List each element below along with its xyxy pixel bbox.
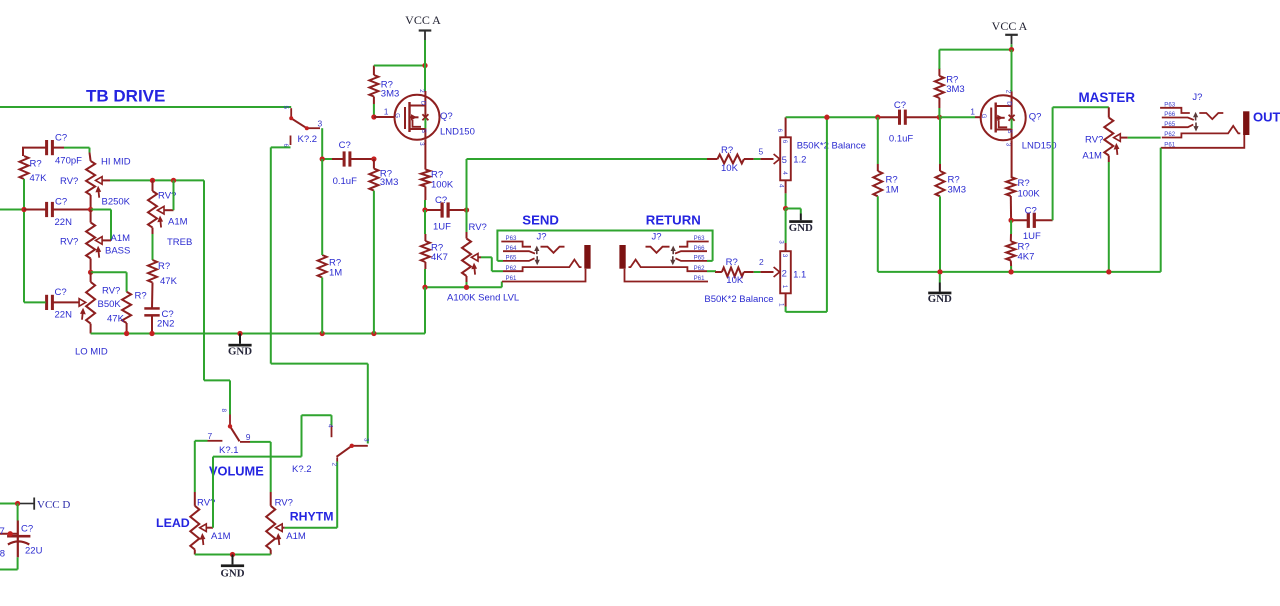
switch K?.1 arm <box>230 426 240 441</box>
wire 470pF right <box>53 147 64 149</box>
svg-text:9: 9 <box>246 432 251 442</box>
wire pin9 to RHYTM <box>250 441 271 443</box>
resistor R14 100K <box>1006 177 1015 196</box>
svg-text:1: 1 <box>384 107 389 117</box>
wire R5 bottom <box>373 97 375 105</box>
transistor Q2 LND150 <box>981 95 1026 140</box>
wire RV2 top lead <box>152 180 154 191</box>
svg-text:3: 3 <box>1004 143 1011 147</box>
wire BASS bottom right <box>91 271 127 273</box>
potentiometer 1.1 box <box>780 251 791 293</box>
svg-text:3: 3 <box>418 142 425 146</box>
node junctions <box>937 269 942 274</box>
switch K?.2 upper pin 6 stub <box>290 136 292 146</box>
node rail dots <box>124 331 129 336</box>
svg-text:5: 5 <box>782 155 787 166</box>
wire send ground rail <box>425 286 502 288</box>
svg-text:C?: C? <box>1025 205 1037 216</box>
wire drain right <box>1011 50 1013 92</box>
node wiper rail dots <box>150 178 155 183</box>
svg-text:3M3: 3M3 <box>948 185 966 196</box>
node junction <box>15 501 20 506</box>
switch K?.2 upper pivot dot <box>289 116 293 120</box>
pot box 1.2 wiper arrow <box>774 154 780 164</box>
wire right ground rail <box>878 271 1161 273</box>
wire 0.1uF right side <box>351 158 374 160</box>
wire SEND green box <box>497 231 712 261</box>
wire RV1 bottom lead <box>90 195 92 210</box>
svg-text:4K7: 4K7 <box>431 252 448 263</box>
svg-text:22N: 22N <box>55 310 73 321</box>
wire TB DRIVE <box>0 106 291 108</box>
wire 1.1 bottom loop <box>785 307 787 312</box>
wire ground rail <box>91 333 425 335</box>
resistor R13 3M3 <box>936 171 945 196</box>
wire pin4 to node <box>785 193 787 208</box>
wire RV5 bottom <box>466 276 468 282</box>
svg-text:2: 2 <box>1004 90 1011 94</box>
svg-text:1: 1 <box>777 303 784 307</box>
wire RV8 bottom lead <box>270 550 272 555</box>
capacitor C? 1UF right <box>1027 213 1030 228</box>
wire 2N2 bottom <box>151 315 153 333</box>
svg-text:J?: J? <box>1192 92 1202 103</box>
svg-text:RV?: RV? <box>469 222 487 233</box>
node junction <box>937 115 942 120</box>
wire RV7 wiper <box>206 527 213 529</box>
resistor R2 47K <box>122 292 131 323</box>
svg-text:A1M: A1M <box>286 531 306 542</box>
switch K?.2 upper arm <box>291 118 307 128</box>
wire OUT sleeve ground <box>1160 148 1162 272</box>
node junction <box>875 115 880 120</box>
wire RV5 wiper <box>478 256 481 258</box>
wire R9 left <box>716 270 722 273</box>
wire 1UF left <box>425 209 441 211</box>
capacitor C? 22U <box>17 521 19 558</box>
wire node to 1.1 <box>785 209 787 244</box>
svg-text:G: G <box>980 114 987 119</box>
potentiometer RV8 A1M RHYTM <box>266 506 275 550</box>
wire R15 bottom <box>1010 261 1012 267</box>
svg-text:S: S <box>420 129 427 133</box>
svg-text:1UF: 1UF <box>433 222 451 233</box>
wire 1UF up-right <box>466 159 468 210</box>
wire K?.2 pin6 left <box>271 146 291 148</box>
wire VCC D entry <box>0 503 18 505</box>
svg-text:22U: 22U <box>25 546 43 557</box>
svg-text:C?: C? <box>339 140 351 151</box>
switch K?.2 lower pin 4 stub <box>331 426 333 438</box>
svg-text:1M: 1M <box>886 185 899 196</box>
resistor R15 4K7 <box>1006 241 1015 260</box>
svg-text:8: 8 <box>220 409 227 413</box>
svg-text:B50K: B50K <box>98 299 122 310</box>
svg-text:J?: J? <box>537 232 547 243</box>
pin 6 stub <box>785 117 787 137</box>
switch K?.1 pin 9 contact <box>240 441 250 443</box>
svg-text:VCC A: VCC A <box>405 13 441 27</box>
wire K?.2 pin3 to node <box>321 128 323 159</box>
svg-text:2: 2 <box>759 257 764 267</box>
svg-text:Q?: Q? <box>1029 112 1042 123</box>
switch K?.2 lower pin 2 stub <box>336 458 338 462</box>
wire R5 top <box>373 66 375 76</box>
wire RV7 bottom lead <box>194 550 196 555</box>
svg-text:R?: R? <box>721 145 733 156</box>
wire R12 top <box>938 68 940 76</box>
svg-text:1.1: 1.1 <box>793 269 806 280</box>
ground GND1 <box>239 334 241 344</box>
resistor R9 10K <box>722 268 744 277</box>
svg-text:G: G <box>394 113 401 118</box>
potentiometer RV5 A100K <box>462 239 471 277</box>
svg-text:3: 3 <box>781 254 788 258</box>
svg-text:HI MID: HI MID <box>101 157 131 168</box>
wire R12 bottom <box>938 98 940 108</box>
transistor Q1 LND150 <box>395 95 440 140</box>
wire RV2 bottom <box>152 228 154 234</box>
wire RV4 bottom lead <box>90 324 92 334</box>
resistor R5 3M3 <box>369 75 378 97</box>
wire RV8 top lead <box>270 492 272 506</box>
resistor R7 100K <box>421 170 430 187</box>
wire RV6 wiper <box>1120 137 1127 139</box>
potentiometer RV1 B250K HI MID <box>86 161 95 195</box>
wire 22N lower left <box>24 301 46 303</box>
svg-text:3M3: 3M3 <box>381 89 399 100</box>
svg-text:GND: GND <box>789 222 813 234</box>
wire R13 bottom <box>939 196 941 272</box>
wire 22N lower to wiper <box>53 301 79 303</box>
svg-text:1M: 1M <box>329 268 342 279</box>
node junction <box>88 270 93 275</box>
wire RV3 wiper <box>102 239 111 241</box>
node junctions <box>422 285 427 290</box>
switch K?.2 upper pin 3 contact <box>309 127 321 129</box>
wire interstage rail <box>786 116 878 118</box>
wire R10 right <box>744 158 754 160</box>
wire RETURN tip feed <box>707 270 716 272</box>
svg-text:BASS: BASS <box>105 246 130 257</box>
svg-text:R?: R? <box>1018 178 1030 189</box>
svg-text:C?: C? <box>55 133 67 144</box>
wire to BASS wiper <box>91 209 111 211</box>
power VCC A left <box>419 29 432 31</box>
capacitor C? 0.1uF left <box>343 151 346 166</box>
wire RV7 top lead <box>194 492 196 506</box>
node junction <box>1008 218 1013 223</box>
switch K?.1 pin 8 stub <box>229 415 231 427</box>
svg-text:0.1uF: 0.1uF <box>333 176 357 187</box>
node junctions <box>422 207 427 212</box>
wire R1 bottom <box>23 179 25 302</box>
capacitor C? 0.1uF right <box>898 110 901 125</box>
svg-text:OUT: OUT <box>1253 110 1280 125</box>
svg-text:R?: R? <box>135 291 147 302</box>
wire R13 top <box>939 117 941 164</box>
switch K?.2 lower pin 3 contact <box>352 445 368 447</box>
svg-text:MASTER: MASTER <box>1079 90 1136 105</box>
power flag VCC D <box>20 503 34 505</box>
svg-text:C?: C? <box>894 100 906 111</box>
wire 0.1uF left side <box>322 158 332 160</box>
svg-text:47K: 47K <box>107 314 125 325</box>
svg-text:LND150: LND150 <box>1022 141 1057 152</box>
wire R8 top <box>424 210 426 234</box>
svg-text:5: 5 <box>759 147 764 157</box>
wire VCC D down <box>17 504 19 521</box>
svg-text:VOLUME: VOLUME <box>209 464 264 479</box>
wire RV6 top lead <box>1108 107 1110 117</box>
ground GND2 tap <box>786 208 801 210</box>
resistor R4 1M <box>318 255 327 278</box>
svg-text:6: 6 <box>781 140 788 144</box>
node junction <box>422 63 427 68</box>
svg-text:4: 4 <box>777 184 784 188</box>
svg-text:K?.1: K?.1 <box>219 445 239 456</box>
ground GND3 <box>939 274 941 283</box>
wire RV3 bottom lead <box>90 259 92 273</box>
svg-text:K?.2: K?.2 <box>292 464 312 475</box>
wire cap to gate node <box>906 116 939 118</box>
resistor R8 4K7 <box>421 241 430 262</box>
wire RV2 wiper <box>164 209 174 211</box>
wire clipped component link <box>0 533 18 535</box>
wire 1UF right wiring <box>1011 219 1027 221</box>
svg-text:VCC D: VCC D <box>37 499 70 511</box>
svg-text:3: 3 <box>363 438 370 442</box>
node junction <box>824 115 829 120</box>
wire RV6 bottom <box>1108 156 1110 163</box>
svg-text:6: 6 <box>776 129 783 133</box>
pin 4 stub <box>785 180 787 193</box>
svg-text:A1M: A1M <box>1082 151 1102 162</box>
svg-text:RETURN: RETURN <box>646 213 701 228</box>
svg-text:100K: 100K <box>1018 189 1041 200</box>
node junction <box>1009 47 1014 52</box>
wire pin7 to LEAD <box>195 440 208 442</box>
svg-text:100K: 100K <box>431 180 454 191</box>
svg-text:R?: R? <box>158 261 170 272</box>
potentiometer 1.2 box <box>780 137 791 180</box>
wire R14 bottom <box>1010 196 1012 220</box>
svg-text:SEND: SEND <box>522 213 559 228</box>
switch K?.2 lower arm <box>337 446 352 457</box>
resistor R6 3M3 <box>369 169 378 191</box>
svg-text:C?: C? <box>55 287 67 298</box>
capacitor C? 470pF <box>45 140 48 155</box>
svg-text:R?: R? <box>726 257 738 268</box>
wire VCC A stem <box>424 40 426 91</box>
resistor R3 47K <box>148 260 157 283</box>
node junction <box>783 206 788 211</box>
node junction <box>230 552 235 557</box>
svg-text:1.2: 1.2 <box>793 155 806 166</box>
wire gate right <box>941 116 975 118</box>
svg-text:47K: 47K <box>30 173 48 184</box>
svg-text:GND: GND <box>228 345 252 357</box>
wire R6 bottom <box>373 191 375 334</box>
svg-text:TB DRIVE: TB DRIVE <box>86 87 165 106</box>
wire R10 left <box>707 158 718 160</box>
svg-text:4: 4 <box>327 424 334 428</box>
wire R9 right <box>744 271 754 273</box>
node junction <box>21 207 26 212</box>
node junction <box>8 531 13 536</box>
wire RV4 top lead <box>90 272 92 282</box>
svg-text:TREB: TREB <box>167 237 192 248</box>
svg-text:RV?: RV? <box>60 237 78 248</box>
svg-text:LEAD: LEAD <box>156 516 190 530</box>
svg-text:VCC A: VCC A <box>992 19 1028 33</box>
svg-text:2N2: 2N2 <box>157 319 174 330</box>
svg-text:1: 1 <box>781 285 788 289</box>
svg-text:22N: 22N <box>55 217 73 228</box>
svg-text:5: 5 <box>282 106 289 110</box>
svg-text:4K7: 4K7 <box>1018 252 1035 263</box>
capacitor C? 22N upper <box>45 202 48 217</box>
resistor R10 10K <box>718 155 745 164</box>
svg-text:10K: 10K <box>726 275 744 286</box>
wire R2 bottom <box>126 323 128 334</box>
power VCC A right <box>1005 34 1018 36</box>
switch K?.2 upper pin 5 stub <box>290 108 292 118</box>
pot box 1.1 wiper arrow <box>774 267 780 277</box>
svg-text:RHYTM: RHYTM <box>290 510 334 524</box>
wire Q1 source down <box>424 140 426 170</box>
svg-text:7: 7 <box>208 431 213 441</box>
wire R15 top <box>1010 220 1012 234</box>
wire VCC right stem <box>1011 44 1013 49</box>
resistor R11 1M <box>873 171 882 196</box>
svg-text:D: D <box>1006 101 1013 106</box>
svg-text:3M3: 3M3 <box>946 84 964 95</box>
potentiometer RV4 B50K LO MID <box>86 282 95 324</box>
svg-text:B50K*2 Balance: B50K*2 Balance <box>797 140 866 151</box>
wire drain rail link <box>424 287 426 333</box>
wire R8 bottom <box>424 262 426 269</box>
potentiometer RV7 A1M LEAD <box>190 506 199 550</box>
resistor R1 47K <box>20 156 29 179</box>
potentiometer RV3 A1M BASS <box>86 223 95 259</box>
svg-text:RV?: RV? <box>60 176 78 187</box>
svg-text:GND: GND <box>221 567 245 579</box>
wire R11 top <box>877 117 879 164</box>
wire 22U bottom <box>17 557 19 569</box>
svg-text:10K: 10K <box>721 163 739 174</box>
wire Q1 drain top <box>424 91 426 95</box>
svg-text:47K: 47K <box>160 276 178 287</box>
wire RV1 wiper <box>102 179 110 181</box>
svg-text:LO MID: LO MID <box>75 347 108 358</box>
wire 1UF to master <box>1052 107 1054 220</box>
wire R6 top <box>373 159 375 169</box>
svg-text:C?: C? <box>21 524 33 535</box>
node junctions <box>320 156 325 161</box>
svg-text:RV?: RV? <box>275 497 293 508</box>
resistor R12 3M3 <box>935 76 944 98</box>
pin 1 stub <box>785 293 787 306</box>
svg-text:470pF: 470pF <box>55 156 82 167</box>
svg-text:LND150: LND150 <box>440 127 475 138</box>
ground GND2 <box>800 214 802 221</box>
wire volume ground rail <box>195 554 271 556</box>
wire RV8 wiper <box>282 527 285 529</box>
svg-text:C?: C? <box>435 195 447 206</box>
potentiometer RV2 A1M TREB <box>148 191 157 228</box>
svg-text:4: 4 <box>781 171 788 175</box>
svg-text:A1M: A1M <box>168 217 188 228</box>
svg-text:3: 3 <box>777 240 784 244</box>
svg-text:A1M: A1M <box>111 233 131 244</box>
svg-text:1: 1 <box>970 107 975 117</box>
wire RV5 top lead <box>466 210 468 232</box>
wire R4 bottom <box>321 278 323 334</box>
wire R4 top <box>321 159 323 255</box>
svg-text:B50K*2 Balance: B50K*2 Balance <box>704 294 773 305</box>
capacitor C? 22N lower <box>45 295 48 310</box>
svg-text:A1M: A1M <box>211 531 231 542</box>
wire 22N left entry <box>0 209 24 211</box>
svg-text:2: 2 <box>331 463 338 467</box>
svg-text:3: 3 <box>318 119 323 129</box>
node gate junction <box>371 114 376 119</box>
wire 22N to pot <box>24 209 46 211</box>
wire rail to cap <box>878 116 899 118</box>
svg-text:GND: GND <box>928 293 952 305</box>
svg-text:8: 8 <box>0 548 5 559</box>
svg-text:S: S <box>1006 129 1013 133</box>
svg-text:R?: R? <box>30 159 42 170</box>
wire wiper rail down <box>203 180 205 380</box>
capacitor C? 2N2 <box>144 307 159 310</box>
node junction <box>88 207 93 212</box>
ground GND4 <box>232 555 234 565</box>
wire R7 bottom <box>424 187 426 201</box>
wire Q2 source down <box>1011 140 1013 177</box>
svg-text:D: D <box>420 101 427 106</box>
wire VCC to R5 <box>374 65 425 67</box>
capacitor C? 1UF left <box>441 202 444 217</box>
wire 2N2 top <box>151 283 154 309</box>
svg-text:RV?: RV? <box>102 286 120 297</box>
wire RV3 top lead <box>90 210 92 223</box>
svg-text:RV?: RV? <box>1085 135 1103 146</box>
wire gate <box>374 116 395 118</box>
svg-text:2: 2 <box>782 269 787 280</box>
svg-text:C?: C? <box>55 197 67 208</box>
svg-text:Q?: Q? <box>440 111 453 122</box>
svg-text:K?.2: K?.2 <box>298 134 318 145</box>
wire VCC to stage2 <box>939 49 1011 51</box>
wire R11 bottom <box>877 196 879 272</box>
svg-text:2: 2 <box>418 89 425 93</box>
svg-text:B250K: B250K <box>102 197 131 208</box>
wire 470pF left <box>23 148 46 156</box>
switch K?.1 pin 7 contact <box>208 440 223 442</box>
svg-text:A100K Send LVL: A100K Send LVL <box>447 293 519 304</box>
svg-text:1UF: 1UF <box>1023 231 1041 242</box>
svg-text:07: 07 <box>0 526 5 537</box>
potentiometer RV6 A1M MASTER <box>1104 118 1113 156</box>
svg-text:0.1uF: 0.1uF <box>889 133 913 144</box>
svg-text:3M3: 3M3 <box>380 177 398 188</box>
svg-text:J?: J? <box>652 232 662 243</box>
